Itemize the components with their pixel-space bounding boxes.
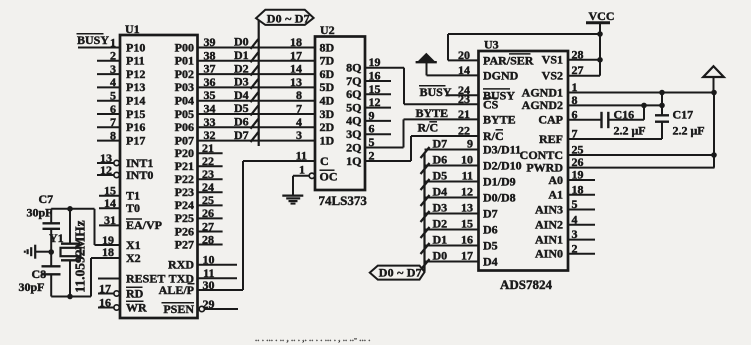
wire AGND vertical (triangle to CONTC/PWRD) (713, 93, 715, 168)
svg-text:AIN3: AIN3 (535, 202, 563, 216)
svg-text:30pF: 30pF (27, 206, 53, 220)
U2 pin 5 wire (2Q) to U3 BYTE (365, 119, 404, 149)
U2 pin 2 wire (1Q) to U3 R/C (365, 136, 411, 163)
U2 internal label 6Q (346, 87, 361, 101)
U1 pin 10 wire (RXD) (168, 253, 237, 272)
svg-text:VS2: VS2 (542, 69, 563, 83)
svg-text:C8: C8 (32, 267, 47, 281)
svg-text:5D: 5D (320, 80, 335, 94)
U3 pin 6 wire (CAP) (538, 107, 601, 126)
svg-text:1Q: 1Q (346, 154, 361, 168)
junction crystal top / rail (67, 206, 73, 212)
U1 pin 6 wire (P15) (97, 102, 145, 121)
svg-text:U2: U2 (320, 23, 335, 37)
svg-text:11.0592MHz: 11.0592MHz (73, 220, 88, 292)
U2 pin 1 wire (OC, bubble) to ground (293, 163, 338, 184)
svg-text:D4: D4 (483, 254, 498, 268)
svg-text:1: 1 (572, 80, 578, 94)
U1 internal label P02 (175, 67, 194, 81)
svg-text:19: 19 (572, 168, 584, 182)
U2 internal label 3Q (346, 127, 361, 141)
svg-text:D5: D5 (483, 238, 498, 252)
capacitor C7 30pF (43, 209, 61, 252)
svg-text:6: 6 (369, 122, 375, 136)
svg-text:P15: P15 (126, 107, 145, 121)
junction AGND2 row / C17 branch (659, 103, 665, 109)
U1 pin 22 wire (P21) (175, 154, 223, 173)
svg-text:8: 8 (110, 128, 116, 142)
svg-text:6: 6 (572, 107, 578, 121)
U1 pin 7 wire (P16) (97, 115, 145, 134)
digital ground symbol (filled triangle) (416, 53, 437, 62)
capacitor C16 2.2uF (CAP pin to AGND2) (602, 105, 645, 128)
svg-text:AGND2: AGND2 (522, 98, 563, 112)
wire data bus row D7 (U1 P07 pin 32 to U2 1D pin 3) (198, 128, 316, 142)
svg-text:4Q: 4Q (346, 114, 361, 128)
svg-text:5: 5 (369, 135, 375, 149)
wire D1 from bus to U3 pin 16 (D5) (421, 233, 498, 255)
svg-text:5: 5 (110, 89, 116, 103)
U2 pin 12 wire stub (5Q) (365, 95, 391, 109)
svg-text:P12: P12 (126, 67, 145, 81)
svg-text:DGND: DGND (483, 68, 519, 82)
U3 pin 27 wire (VS2) (542, 63, 600, 82)
U1 pin 4 wire (P13) (97, 75, 145, 94)
wire data bus row D4 (U1 P04 pin 35 to U2 4D pin 8) (198, 88, 316, 102)
U1 pin 14 wire (T0) (99, 196, 140, 215)
svg-text:16: 16 (99, 295, 111, 309)
U3 pin 1 wire (AGND1) (522, 80, 715, 99)
U1 pin 25 wire (P24) (175, 193, 223, 212)
svg-text:VS1: VS1 (542, 53, 563, 67)
svg-text:1: 1 (110, 35, 116, 49)
U2 internal label 3D (320, 107, 335, 121)
svg-text:31: 31 (104, 213, 116, 227)
junction crystal bottom / rail (67, 294, 73, 300)
bus flag D0~D7 (top) (256, 10, 314, 25)
U1 internal label P07 (175, 133, 194, 147)
svg-text:3Q: 3Q (346, 127, 361, 141)
svg-text:AIN0: AIN0 (535, 247, 563, 261)
C16 label (614, 108, 646, 138)
svg-text:27: 27 (202, 219, 214, 233)
svg-text:2: 2 (369, 149, 375, 163)
svg-text:37: 37 (204, 62, 216, 76)
wire VCC rail (U3 pin 20 to VCC stem) (448, 33, 600, 35)
svg-text:6D: 6D (320, 67, 335, 81)
svg-text:D5: D5 (234, 101, 249, 115)
U1 pin 1 wire (P10) (78, 35, 145, 54)
svg-text:P02: P02 (175, 67, 194, 81)
U3 reference designator (484, 38, 499, 52)
U2 internal label 1D (320, 133, 335, 147)
svg-text:15: 15 (461, 217, 473, 231)
svg-text:D0/D8: D0/D8 (483, 190, 516, 204)
U1 pin 21 wire (P20) (175, 141, 223, 160)
svg-text:2Q: 2Q (346, 140, 361, 154)
U2 pin 15 wire stub (6Q) (365, 82, 391, 96)
svg-text:P03: P03 (175, 80, 194, 94)
svg-text:P25: P25 (175, 211, 194, 225)
svg-text:11: 11 (462, 169, 473, 183)
U2 pin 16 wire stub (7Q) (365, 69, 391, 83)
svg-text:21: 21 (458, 107, 470, 121)
svg-text:14: 14 (290, 62, 302, 76)
svg-text:PAR/SER: PAR/SER (483, 53, 534, 67)
U1 internal label P01 (175, 54, 194, 68)
power symbol VCC (586, 9, 615, 76)
svg-text:25: 25 (202, 193, 214, 207)
svg-text:D6: D6 (433, 153, 448, 167)
U3 pin 20 wire (PAR/SER) tied to VCC rail (448, 34, 534, 67)
svg-text:2: 2 (572, 241, 578, 255)
svg-text:17: 17 (461, 249, 473, 263)
U2 internal label 4D (320, 94, 335, 108)
wire ALE vertical riser to U2 latch-enable (242, 161, 244, 290)
svg-text:20: 20 (458, 48, 470, 62)
svg-text:1: 1 (299, 163, 305, 177)
svg-text:12: 12 (369, 95, 381, 109)
svg-text:17: 17 (99, 281, 111, 295)
U2 internal label 7Q (346, 74, 361, 88)
svg-text:74LS373: 74LS373 (319, 193, 368, 208)
svg-text:9: 9 (369, 108, 375, 122)
net label R/C and U3 pin 22 wire (411, 121, 504, 144)
U1 pin 28 wire (P27) (175, 232, 223, 251)
svg-text:6: 6 (110, 102, 116, 116)
net label BUSY (at U3 pin 24) (419, 85, 452, 99)
svg-text:35: 35 (204, 88, 216, 102)
svg-text:33: 33 (204, 115, 216, 129)
U2 pin 6 wire stub (3Q) (365, 122, 391, 136)
capacitor C17 2.2uF (AGND1/AGND2 to REF) (655, 93, 669, 140)
U3 pin 5 wire (AIN3) (535, 197, 595, 216)
net label BUSY (at U1 pin 1) (77, 33, 110, 47)
svg-text:23: 23 (458, 92, 470, 106)
svg-text:D0: D0 (234, 35, 249, 49)
wire D2 from bus to U3 pin 15 (D6) (421, 217, 498, 239)
U3 pin 24 wire (BUSY) (446, 83, 515, 102)
U2 internal label 7D (320, 54, 335, 68)
svg-text:4: 4 (110, 75, 116, 89)
U3 pin 2 wire (AIN0) (535, 241, 595, 260)
svg-text:P22: P22 (175, 172, 194, 186)
svg-text:D2: D2 (433, 217, 448, 231)
svg-text:REF: REF (539, 132, 563, 146)
C17 label (673, 108, 705, 138)
U1 pin 16 wire (WR, bubble) (98, 295, 147, 314)
svg-text:14: 14 (104, 196, 116, 210)
U3 part label ADS7824 (500, 277, 553, 292)
svg-text:2.2 μF: 2.2 μF (673, 124, 705, 138)
svg-text:P20: P20 (175, 146, 194, 160)
wire D3 from bus to U3 pin 13 (D7) (421, 201, 498, 223)
svg-text:X1: X1 (126, 238, 141, 252)
svg-text:D5: D5 (433, 169, 448, 183)
svg-text:26: 26 (202, 206, 214, 220)
wire data bus row D2 (U1 P02 pin 37 to U2 6D pin 14) (198, 61, 316, 75)
IC U3 (ADS7824 ADC) body (479, 51, 569, 271)
svg-text:28: 28 (202, 232, 214, 246)
wire data bus row D5 (U1 P05 pin 34 to U2 3D pin 7) (198, 101, 316, 115)
svg-text:P06: P06 (175, 120, 194, 134)
svg-text:28: 28 (572, 47, 584, 61)
svg-text:D4: D4 (433, 185, 448, 199)
U3 pin 28 wire (VS1) (542, 47, 600, 66)
wire X1 top rail (51, 209, 94, 245)
svg-text:1D: 1D (320, 133, 335, 147)
svg-text:5: 5 (572, 197, 578, 211)
svg-text:C16: C16 (614, 108, 635, 122)
svg-text:P10: P10 (126, 40, 145, 54)
wire data bus row D0 (U1 P00 pin 39 to U2 8D pin 18) (198, 35, 316, 49)
svg-text:P24: P24 (175, 198, 194, 212)
U2 pin 19 wire (8Q) to U3 CS (365, 55, 404, 104)
faint watermark (scan artifact) (255, 333, 371, 343)
svg-text:D2/D10: D2/D10 (483, 158, 522, 172)
svg-text:8: 8 (296, 88, 302, 102)
ground symbol (U2 OC) (282, 176, 303, 204)
wire D5 from bus to U3 pin 11 (D1/D9) (421, 169, 516, 191)
svg-text:P17: P17 (126, 133, 145, 147)
svg-text:P21: P21 (175, 159, 194, 173)
wire D6 from bus to U3 pin 10 (D2/D10) (421, 153, 522, 175)
svg-text:3: 3 (296, 128, 302, 142)
svg-text:24: 24 (202, 180, 214, 194)
svg-text:8D: 8D (320, 40, 335, 54)
svg-text:5Q: 5Q (346, 100, 361, 114)
U3 pin 14 wire (DGND) (427, 63, 519, 82)
svg-text:15: 15 (369, 82, 381, 96)
svg-text:U1: U1 (125, 22, 140, 36)
svg-text:P01: P01 (175, 54, 194, 68)
C7 label (27, 192, 54, 220)
U1 internal label P04 (175, 94, 194, 108)
U1 pin 24 wire (P23) (175, 180, 223, 199)
wire data bus row D3 (U1 P03 pin 36 to U2 5D pin 13) (198, 75, 316, 89)
svg-text:4: 4 (572, 212, 578, 226)
svg-text:D7: D7 (234, 128, 249, 142)
wire D4 from bus to U3 pin 12 (D0/D8) (421, 185, 516, 207)
svg-text:.. . ... . .. , .. . ,. .. .: .. . ... . .. , .. . ,. .. . . ... . , .… (255, 333, 371, 343)
U2 internal label 8Q (346, 61, 361, 75)
Y1 reference label (49, 231, 64, 245)
svg-text:D6: D6 (483, 222, 498, 236)
U1 pin 19 wire (X1) (95, 233, 141, 252)
analog ground symbol (open triangle) (703, 66, 724, 92)
svg-text:D1: D1 (433, 233, 448, 247)
svg-text:A0: A0 (548, 173, 563, 187)
svg-text:13: 13 (290, 75, 302, 89)
svg-text:R/C: R/C (483, 129, 504, 143)
svg-text:36: 36 (204, 75, 216, 89)
svg-text:P27: P27 (175, 237, 194, 251)
svg-text:CS: CS (483, 97, 499, 111)
U1 pin 2 wire (P11) (97, 49, 145, 68)
U2 internal label 2D (320, 120, 335, 134)
U1 pin 5 wire (P14) (97, 89, 145, 108)
ground symbol (crystal caps, sideways) (25, 245, 51, 259)
svg-text:BYTE: BYTE (483, 113, 516, 127)
U2 internal label 8D (320, 40, 335, 54)
svg-text:EA/VP: EA/VP (126, 218, 162, 232)
svg-text:C: C (320, 154, 329, 168)
svg-text:D0 ~ D7: D0 ~ D7 (267, 11, 310, 25)
svg-text:P14: P14 (126, 94, 145, 108)
U1 internal label P05 (175, 107, 194, 121)
svg-text:21: 21 (202, 141, 214, 155)
wire D7 from bus to U3 pin 9 (D3/D11) (421, 137, 522, 159)
svg-text:P11: P11 (126, 54, 145, 68)
U1 pin 8 wire (P17) (97, 128, 145, 147)
net label BYTE and U3 pin 21 wire (404, 106, 516, 127)
svg-text:12: 12 (100, 163, 112, 177)
svg-text:ALE/P: ALE/P (159, 283, 194, 297)
svg-text:18: 18 (290, 35, 302, 49)
svg-text:T0: T0 (126, 201, 140, 215)
svg-text:U3: U3 (484, 38, 499, 52)
U2 internal label 5D (320, 80, 335, 94)
U1 pin 17 wire (RD, bubble) (98, 281, 144, 300)
U3 pin 4 wire (AIN2) (535, 212, 595, 231)
crystal Y1 11.0592MHz (61, 209, 81, 297)
svg-text:P16: P16 (126, 120, 145, 134)
svg-text:6Q: 6Q (346, 87, 361, 101)
U3 pin 19 wire (A0) (548, 168, 595, 187)
U1 pin 12 wire (INT0, active-low bubble) (97, 163, 153, 182)
bus D0~D7 vertical (left bus) (258, 19, 260, 146)
U3 pin 25 wire (CONTC) (520, 143, 715, 162)
svg-text:AIN1: AIN1 (535, 232, 563, 246)
wire X2 bottom rail (51, 258, 91, 297)
svg-text:16: 16 (369, 69, 381, 83)
svg-text:12: 12 (461, 185, 473, 199)
junction C7/C8/ground (48, 249, 54, 255)
IC U2 (74LS373 latch) body (315, 37, 365, 191)
junction VCC rail / PAR-SER (597, 31, 603, 37)
svg-text:7: 7 (572, 127, 578, 141)
svg-text:D1/D9: D1/D9 (483, 174, 516, 188)
junction VCC / VS1 pin 28 (597, 57, 603, 63)
U1 pin 18 wire (X2) (91, 245, 141, 265)
svg-text:D4: D4 (234, 88, 249, 102)
svg-text:3: 3 (110, 62, 116, 76)
U2 pin 9 wire stub (4Q) (365, 108, 391, 122)
svg-text:RXD: RXD (168, 258, 194, 272)
U2 internal label 2Q (346, 140, 361, 154)
capacitor C8 30pF (42, 252, 61, 297)
svg-text:CAP: CAP (538, 113, 563, 127)
svg-text:R/C: R/C (418, 121, 439, 135)
svg-text:C7: C7 (39, 192, 54, 206)
svg-text:P26: P26 (175, 224, 194, 238)
svg-text:4: 4 (296, 115, 302, 129)
svg-text:4D: 4D (320, 94, 335, 108)
svg-text:7D: 7D (320, 54, 335, 68)
svg-text:8: 8 (572, 93, 578, 107)
svg-text:34: 34 (204, 102, 216, 116)
IC U1 (80C51 MCU) body (120, 35, 198, 318)
svg-text:7: 7 (110, 115, 116, 129)
svg-text:A1: A1 (548, 188, 563, 202)
svg-text:AIN2: AIN2 (535, 218, 563, 232)
svg-text:8Q: 8Q (346, 61, 361, 75)
svg-text:7Q: 7Q (346, 74, 361, 88)
U1 pin 26 wire (P25) (175, 206, 223, 225)
bus flag D0~D7 (bottom) (370, 266, 425, 280)
svg-text:D1: D1 (234, 48, 249, 62)
U3 pin 3 wire (AIN1) (535, 227, 595, 246)
svg-text:D3: D3 (234, 75, 249, 89)
U1 pin 31 wire (EA/VP) (99, 213, 162, 232)
U3 pin 23 wire (CS) (404, 92, 499, 112)
U1 pin 11 wire (TXD) (169, 266, 237, 285)
U3 pin 8 wire (AGND2) (522, 93, 662, 112)
svg-text:38: 38 (204, 48, 216, 62)
svg-text:ADS7824: ADS7824 (500, 277, 553, 292)
svg-text:17: 17 (290, 48, 302, 62)
U1 reference designator (125, 22, 140, 36)
svg-text:X2: X2 (126, 251, 141, 265)
U1 pin 27 wire (P26) (175, 219, 223, 238)
svg-text:27: 27 (572, 63, 584, 77)
svg-text:10: 10 (203, 253, 215, 267)
U1 pin 23 wire (P22) (175, 167, 223, 186)
svg-text:BUSY: BUSY (77, 33, 109, 47)
svg-text:D3/D11: D3/D11 (483, 142, 521, 156)
U2 internal label 5Q (346, 100, 361, 114)
U1 internal label P00 (175, 40, 194, 54)
svg-text:BYTE: BYTE (416, 106, 449, 120)
svg-text:P13: P13 (126, 80, 145, 94)
svg-text:D3: D3 (433, 201, 448, 215)
U1 internal label P03 (175, 80, 194, 94)
svg-text:D0 ~ D7: D0 ~ D7 (379, 266, 422, 280)
C8 label (19, 267, 47, 294)
svg-text:30: 30 (203, 278, 215, 292)
svg-text:P23: P23 (175, 185, 194, 199)
U2 internal label 6D (320, 67, 335, 81)
U3 pin 18 wire (A1) (548, 182, 595, 201)
svg-text:PSEN: PSEN (163, 302, 194, 316)
junction CONTC row / AGND vertical (711, 152, 717, 158)
svg-text:3D: 3D (320, 107, 335, 121)
svg-text:C17: C17 (673, 108, 694, 122)
svg-text:10: 10 (461, 153, 473, 167)
svg-text:7: 7 (296, 102, 302, 116)
svg-text:14: 14 (458, 63, 470, 77)
svg-text:32: 32 (204, 128, 216, 142)
U1 RESET pin wire (98, 272, 165, 286)
svg-text:P05: P05 (175, 107, 194, 121)
wire data bus row D1 (U1 P01 pin 38 to U2 7D pin 17) (198, 48, 316, 62)
junction C16 / AGND2 row (641, 103, 647, 109)
svg-text:23: 23 (202, 167, 214, 181)
U1 pin 30 wire (ALE/P to 74LS373 C) (159, 278, 243, 297)
bus D0~D7 vertical (right bus) (423, 153, 425, 271)
U2 internal label 1Q (346, 154, 361, 168)
svg-text:39: 39 (204, 35, 216, 49)
svg-text:19: 19 (369, 55, 381, 69)
svg-text:2.2 μF: 2.2 μF (614, 124, 646, 138)
svg-text:2D: 2D (320, 120, 335, 134)
U2 internal label 4Q (346, 114, 361, 128)
wire data bus row D6 (U1 P06 pin 33 to U2 2D pin 4) (198, 115, 316, 129)
svg-text:D0: D0 (433, 249, 448, 263)
U3 pin 7 wire (REF) (539, 127, 662, 146)
junction AGND1 row / C17 branch (659, 90, 665, 96)
svg-text:RD: RD (126, 287, 144, 301)
